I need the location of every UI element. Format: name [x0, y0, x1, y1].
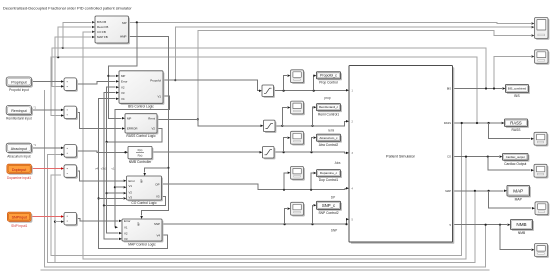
wire Atrac sum to NMB controller — [77, 151, 125, 152]
junction row1 workspace — [313, 90, 315, 92]
to-workspace Cardiac_output — [504, 155, 530, 162]
svg-text:MAP: MAP — [513, 188, 523, 193]
junction CO scope — [487, 156, 489, 158]
svg-text:CO FB: CO FB — [97, 30, 106, 34]
saturation remi — [265, 122, 277, 134]
to-workspace Propofol_c — [318, 73, 342, 80]
junction RASS scope — [488, 122, 490, 124]
svg-text:V2: V2 — [121, 85, 125, 89]
to-workspace RASS — [506, 120, 529, 128]
svg-text:V3: V3 — [156, 195, 160, 199]
wire MAP feedback via bottom nest to MP input 4 — [55, 37, 475, 263]
wire BIS feedback into MP input 1 — [63, 22, 92, 48]
wire nest branch to Atrac sum — [48, 155, 475, 263]
svg-text:NMB Controller: NMB Controller — [129, 160, 152, 164]
wire MAP branch to SNP sum — [55, 221, 61, 223]
wire Prop sum to BIS controller error — [77, 81, 116, 84]
inport Dopinput (highlighted) — [8, 166, 33, 175]
wire Propinput to sum — [32, 81, 61, 83]
wire SNP sum to MAP controller error — [77, 219, 119, 221]
svg-text:SNP Control2: SNP Control2 — [318, 211, 338, 215]
junction RASS fb1 — [461, 122, 463, 124]
wire prop tap to scope A input 2 — [175, 27, 531, 80]
svg-text:V3: V3 — [129, 195, 133, 199]
junction NMB scope — [499, 224, 501, 226]
wire row3 to patient input 3 — [274, 151, 346, 154]
wire Remi control to saturation — [157, 119, 260, 125]
junction RASS to MP input 2 — [57, 56, 59, 58]
svg-text:v4: v4 — [95, 166, 98, 170]
wire patient NMB output — [453, 224, 508, 226]
svg-text:SNP input1: SNP input1 — [11, 224, 27, 228]
sum block atrac error — [65, 146, 78, 159]
wire Dop sum to CO controller error — [77, 171, 124, 181]
wire row5 branch to scope5 — [285, 209, 287, 225]
junction row3 workspace — [310, 151, 312, 153]
junction V1 to CO controller — [114, 186, 116, 188]
svg-text:NMB: NMB — [516, 222, 526, 227]
svg-text:HMP: HMP — [120, 35, 126, 39]
svg-text:BIS FB: BIS FB — [97, 20, 106, 24]
wire MP to BIS controller input — [108, 75, 115, 77]
wire V3 branch to MAP controller — [104, 206, 119, 239]
svg-text:Propofol_c: Propofol_c — [320, 74, 337, 78]
junction MP output — [136, 21, 138, 23]
svg-text:Remi FB: Remi FB — [97, 25, 108, 29]
junction NMB controller input — [124, 151, 126, 153]
inport Reminput — [8, 107, 33, 116]
svg-text:MAP: MAP — [515, 198, 523, 202]
scope RASS display — [535, 134, 548, 147]
junction remi tap — [197, 118, 199, 120]
wire row2 to patient input 2 — [275, 121, 346, 126]
svg-text:Atracurium_c: Atracurium_c — [319, 136, 338, 140]
wire Dopinput to sum (red) — [31, 168, 61, 170]
svg-text:Prop Control: Prop Control — [319, 80, 338, 84]
wire row5 branch to SNP_c — [312, 205, 315, 224]
svg-text:Dopamine_c: Dopamine_c — [320, 171, 338, 175]
junction BIS feedback to MP input 1 — [62, 47, 64, 49]
wire patient RASS output — [453, 122, 502, 124]
wire V2 branch to CO controller — [107, 192, 123, 194]
to-workspace SNP_c — [318, 203, 342, 211]
wire MAP branch to scope E — [489, 191, 532, 208]
wire row2 branch to Remifentanil_c — [312, 107, 315, 126]
wire bottom nest outer line — [41, 269, 490, 271]
scope prop control — [292, 71, 305, 84]
subsystem MP setpoint block — [96, 17, 129, 44]
svg-text:Dopamine input1: Dopamine input1 — [7, 176, 31, 180]
svg-text:remi: remi — [328, 129, 334, 133]
junction BIS fb2 — [493, 87, 495, 89]
svg-text:MP: MP — [137, 222, 141, 226]
svg-text:Patient Simulator: Patient Simulator — [386, 154, 416, 158]
to-workspace NMB — [512, 221, 534, 231]
svg-text:prop: prop — [324, 96, 331, 100]
subsystem Patient Simulator — [351, 67, 455, 244]
wire row4 branch to Dopamine_c — [311, 173, 313, 190]
svg-text:BIS_combined: BIS_combined — [508, 87, 527, 91]
wire DP control row4 — [162, 184, 347, 190]
svg-text:SNP: SNP — [154, 222, 160, 226]
junction V3 node — [103, 204, 105, 206]
wire patient MAP output — [453, 190, 504, 192]
scope NMB display — [536, 245, 549, 258]
junction MP to BIS controller — [107, 75, 109, 77]
wire NMB controller to saturation — [152, 151, 259, 153]
junction row5 patient — [345, 223, 347, 225]
svg-text:MP: MP — [121, 74, 125, 78]
svg-text:Propofol: Propofol — [150, 78, 161, 82]
saturation atra — [264, 148, 276, 160]
svg-text:RASS Control Logic: RASS Control Logic — [126, 134, 156, 138]
wire row1 to patient input 1 — [274, 89, 347, 91]
scope CO display — [535, 166, 548, 179]
junction CO fb1 — [465, 156, 467, 158]
svg-text:Error: Error — [121, 80, 127, 84]
svg-text:V1: V1 — [124, 225, 128, 229]
junction MAP to SNP sum — [54, 221, 56, 223]
wire SNPinput to sum (red) — [31, 216, 61, 218]
svg-text:V1: V1 — [157, 94, 161, 98]
svg-text:RASS: RASS — [444, 121, 451, 125]
to-workspace Dopamine_c — [318, 171, 342, 178]
wire MP output to top scope A input 1 — [129, 22, 532, 23]
inport Propinput — [8, 78, 33, 87]
svg-text:Error: Error — [124, 219, 130, 223]
wire Reminput to sum — [32, 109, 61, 111]
junction NMB fb — [485, 224, 487, 226]
svg-text:MP: MP — [140, 179, 144, 183]
wire V4 from MAP controller — [99, 99, 168, 249]
junction prop tap — [174, 79, 176, 81]
to-workspace BIS_combined — [507, 86, 530, 94]
svg-text:v2: v2 — [104, 166, 107, 170]
svg-text:Remi Control1: Remi Control1 — [318, 112, 339, 116]
svg-text:SNPinput: SNPinput — [12, 216, 27, 220]
svg-text:Atracurium input: Atracurium input — [7, 154, 30, 158]
svg-text:ERROR: ERROR — [127, 127, 137, 131]
wire V2 branch down — [107, 142, 119, 233]
svg-text:NMB: NMB — [518, 231, 526, 235]
svg-text:V1: V1 — [129, 184, 133, 188]
wire V4 branch to CO controller V3 input — [99, 197, 123, 199]
junction row3 scope — [283, 151, 285, 153]
wire HMP output distribution — [129, 36, 169, 215]
wire CO branch to scope D — [488, 157, 531, 171]
svg-text:MAP FB: MAP FB — [97, 35, 108, 39]
wire row1 branch to scope1 — [284, 76, 287, 91]
wire BIS branch to scope B — [494, 57, 531, 89]
sum block remi error — [65, 108, 78, 121]
svg-text:V4: V4 — [121, 97, 125, 101]
svg-text:Cardiac Output: Cardiac Output — [504, 162, 526, 166]
junction V2 to CO controller — [106, 192, 108, 194]
svg-text:MAP: MAP — [445, 189, 451, 193]
wire V2 from RASS controller — [107, 87, 162, 142]
to-workspace Remifentanil_c — [318, 105, 342, 112]
svg-text:MP: MP — [122, 21, 126, 25]
sum block prop error — [65, 79, 78, 92]
wire V1 branch to CO controller — [115, 186, 123, 188]
svg-text:CO: CO — [447, 155, 451, 159]
to-workspace MAP — [508, 187, 531, 198]
junction row1 scope — [283, 90, 285, 92]
svg-text:BIS: BIS — [514, 94, 520, 98]
svg-text:Propinput: Propinput — [11, 81, 26, 85]
svg-text:BIS Control Logic: BIS Control Logic — [128, 105, 154, 109]
inport SNPinput (highlighted) — [9, 214, 33, 223]
inport Atracinput — [8, 145, 33, 154]
wire remi tap to scope A input 3 — [198, 31, 531, 120]
svg-text:BIS: BIS — [447, 87, 451, 91]
junction RASS fb2 — [476, 122, 478, 124]
svg-text:DP: DP — [331, 195, 335, 199]
sum block dop error — [65, 166, 78, 179]
svg-text:RASS: RASS — [510, 120, 522, 125]
svg-text:Dopinput: Dopinput — [12, 168, 26, 172]
saturation prop — [263, 86, 275, 98]
svg-text:CO Control Logic: CO Control Logic — [131, 201, 157, 205]
to-workspace Atracurium_c — [318, 136, 342, 143]
junction row2 workspace — [311, 125, 313, 127]
svg-text:Cardiac_output: Cardiac_output — [506, 155, 525, 159]
svg-text:Atra: Atra — [335, 161, 341, 165]
junction row2 scope — [281, 125, 283, 127]
wire RASS feedback crossline to Remi sum — [51, 57, 477, 123]
junction row4 workspace — [310, 189, 312, 191]
wire CO feedback via bottom nest to MP input 3 — [83, 32, 466, 259]
wire NMB feedback via bottom nest — [45, 90, 486, 267]
wire bottom nest line RASS to Dop sum — [51, 123, 462, 256]
junction row4 scope — [283, 189, 285, 191]
subsystem RASS Control Logic — [126, 115, 158, 134]
junction MAP fb1 — [474, 190, 476, 192]
scope snp control — [292, 204, 305, 217]
wire V1 from BIS controller — [115, 96, 170, 227]
scope MAP display — [536, 203, 549, 216]
wire row2 branch to scope2 — [282, 108, 287, 126]
junction MAP scope — [488, 190, 490, 192]
wire row3 branch to scope3 — [284, 138, 287, 153]
sum block snp error — [65, 214, 78, 227]
svg-text:F(s): F(s) — [138, 148, 143, 152]
svg-text:Remi: Remi — [148, 116, 155, 120]
wire BIS feedback crossline to Prop sum — [52, 48, 486, 89]
svg-text:F(s): F(s) — [138, 153, 143, 157]
scope top combined — [536, 19, 550, 40]
svg-text:SNP_c: SNP_c — [322, 203, 336, 208]
svg-text:Atra Control2: Atra Control2 — [319, 143, 339, 147]
wire patient CO output — [453, 156, 500, 158]
wire RASS branch to scope C — [489, 123, 531, 139]
wire row4 branch to scope4 — [284, 173, 287, 190]
svg-text:Remifentanil_c: Remifentanil_c — [319, 105, 339, 109]
wire patient BIS output — [453, 88, 503, 90]
svg-text:SNP: SNP — [331, 229, 338, 233]
junction BIS fb1 — [485, 87, 487, 89]
wire HMP branch to CO controller top — [145, 168, 169, 173]
svg-text:Reminput: Reminput — [11, 109, 26, 113]
svg-text:V2: V2 — [151, 127, 155, 131]
svg-text:Remifentanil input: Remifentanil input — [6, 117, 32, 121]
transfer function NMB Controller — [129, 148, 153, 160]
svg-text:MAP Control Logic: MAP Control Logic — [128, 242, 156, 246]
scope B — [536, 51, 550, 64]
scope dop control — [292, 168, 305, 181]
junction V4 to CO controller V3 input — [98, 197, 100, 199]
wire Atracinput to sum — [32, 147, 61, 149]
svg-text:Dop Control1: Dop Control1 — [319, 178, 339, 182]
svg-text:DP: DP — [155, 182, 159, 186]
svg-text:V3: V3 — [124, 237, 128, 241]
wire row1 branch to Propofol_c — [312, 76, 315, 91]
wire RASS feedback into MP input 2 — [58, 27, 91, 57]
wire MP output distribution — [108, 22, 136, 118]
svg-text:V4: V4 — [156, 233, 160, 237]
wire Propofol control to saturation — [163, 80, 259, 91]
svg-text:Decentralised-Decoupled Fracti: Decentralised-Decoupled Fractional order… — [3, 6, 132, 11]
scope remi control — [292, 103, 305, 116]
svg-text:Atracinput: Atracinput — [11, 147, 27, 151]
svg-text:Propofol input: Propofol input — [9, 88, 29, 92]
wire row3 branch to Atracurium_c — [312, 138, 314, 153]
subsystem MAP Control Logic — [123, 220, 163, 242]
svg-text:V3: V3 — [121, 91, 125, 95]
junction HMP to CO controller — [167, 167, 169, 169]
svg-text:V2: V2 — [129, 190, 133, 194]
svg-text:v1: v1 — [112, 166, 115, 170]
wire Remi sum to RASS controller error — [77, 112, 122, 128]
scope atra control — [292, 133, 305, 146]
svg-text:V2: V2 — [124, 231, 128, 235]
subsystem CO Control Logic — [128, 177, 163, 201]
wire NMB branch to scope F — [500, 225, 531, 250]
junction V2 node — [106, 141, 108, 143]
subsystem BIS Control Logic — [120, 72, 164, 105]
wire SNP control row5 — [162, 219, 347, 224]
junction row5 workspace — [311, 223, 313, 225]
svg-text:Error: Error — [129, 179, 135, 183]
wire V3 from CO controller — [104, 93, 166, 206]
junction row5 scope — [284, 223, 286, 225]
svg-text:RASS: RASS — [512, 128, 522, 132]
svg-text:MP: MP — [127, 116, 131, 120]
